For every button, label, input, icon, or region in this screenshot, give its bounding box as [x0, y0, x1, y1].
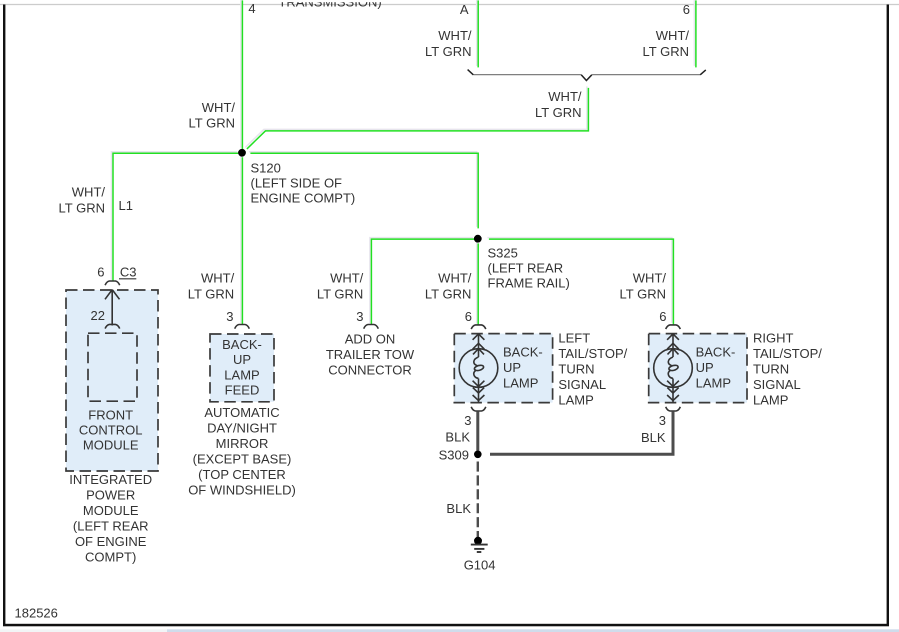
- svg-text:AUTOMATIC: AUTOMATIC: [204, 405, 279, 420]
- svg-text:TRAILER TOW: TRAILER TOW: [326, 347, 415, 362]
- splice S120: [238, 149, 246, 157]
- FCM inner dashed box: [88, 333, 137, 401]
- svg-text:WHT/: WHT/: [202, 100, 236, 115]
- splice S325: [474, 235, 482, 243]
- connector arc right lamp pin 6: [666, 325, 681, 329]
- svg-text:CONTROL: CONTROL: [79, 423, 143, 438]
- svg-text:OF WINDSHIELD): OF WINDSHIELD): [188, 483, 296, 498]
- svg-text:L1: L1: [119, 198, 133, 213]
- svg-text:3: 3: [226, 309, 233, 324]
- svg-text:(LEFT REAR: (LEFT REAR: [73, 519, 149, 534]
- svg-text:BLK: BLK: [446, 501, 471, 516]
- svg-text:WHT/: WHT/: [633, 271, 667, 286]
- svg-text:MODULE: MODULE: [83, 438, 139, 453]
- right back-up lamp dashed box: [649, 334, 747, 403]
- svg-text:BLK: BLK: [641, 430, 666, 445]
- svg-text:FEED: FEED: [225, 383, 260, 398]
- wire W4 from brace to S120: [247, 88, 589, 149]
- svg-text:TURN: TURN: [558, 361, 594, 376]
- svg-text:INTEGRATED: INTEGRATED: [69, 472, 152, 487]
- wire W3 WHT/LT GRN pin 6: [695, 0, 697, 67]
- svg-text:RIGHT: RIGHT: [753, 330, 794, 345]
- svg-text:S120: S120: [251, 161, 281, 176]
- FCM inner arc: [105, 324, 120, 328]
- wire W6 S120 down to back-up lamp feed: [241, 157, 243, 325]
- ground G104: [474, 537, 482, 545]
- svg-text:LT GRN: LT GRN: [643, 44, 689, 59]
- BLK wire left lamp to S309: [476, 411, 479, 450]
- FCM outer dashed box: [66, 290, 158, 471]
- svg-text:LAMP: LAMP: [753, 393, 788, 408]
- svg-text:LEFT: LEFT: [558, 330, 590, 345]
- svg-text:LT GRN: LT GRN: [59, 201, 105, 216]
- left back-up lamp bulb: [459, 334, 498, 403]
- svg-text:TAIL/STOP/: TAIL/STOP/: [753, 346, 822, 361]
- svg-text:WHT/: WHT/: [72, 185, 106, 200]
- wire W5 S120 left branch L1 to C3: [113, 153, 238, 281]
- svg-text:LAMP: LAMP: [224, 368, 259, 383]
- back-up lamp feed dashed box: [210, 334, 274, 402]
- svg-text:FRAME RAIL): FRAME RAIL): [488, 276, 570, 291]
- wire W7 S120 right branch to S325: [250, 153, 478, 228]
- BLK dashed wire to ground: [477, 462, 479, 538]
- svg-text:WHT/: WHT/: [656, 28, 690, 43]
- svg-text:SIGNAL: SIGNAL: [558, 377, 606, 392]
- svg-text:MODULE: MODULE: [83, 503, 139, 518]
- svg-text:LT GRN: LT GRN: [535, 105, 581, 120]
- connector C3 arc: [105, 281, 120, 285]
- svg-text:22: 22: [91, 308, 105, 323]
- left back-up lamp dashed box: [454, 334, 552, 403]
- svg-text:WHT/: WHT/: [201, 271, 235, 286]
- svg-text:6: 6: [659, 309, 666, 324]
- FCM pin arrow 22: [105, 290, 120, 326]
- svg-text:DAY/NIGHT: DAY/NIGHT: [207, 421, 277, 436]
- svg-text:WHT/: WHT/: [330, 271, 364, 286]
- svg-text:A: A: [460, 2, 469, 17]
- svg-text:(LEFT SIDE OF: (LEFT SIDE OF: [251, 176, 343, 191]
- svg-text:6: 6: [97, 265, 104, 280]
- svg-text:SIGNAL: SIGNAL: [753, 377, 801, 392]
- svg-text:LT GRN: LT GRN: [425, 287, 471, 302]
- svg-text:COMPT): COMPT): [85, 550, 136, 565]
- wire W10 S325 right branch to right back-up lamp: [489, 239, 674, 324]
- svg-text:UP: UP: [696, 360, 714, 375]
- wire W9 S325 down to left back-up lamp: [477, 243, 479, 325]
- svg-text:ADD ON: ADD ON: [345, 332, 396, 347]
- svg-text:S309: S309: [439, 448, 469, 463]
- svg-text:LAMP: LAMP: [558, 393, 593, 408]
- connector arc left lamp pin 6: [471, 325, 486, 329]
- svg-text:BACK-: BACK-: [503, 345, 543, 360]
- svg-text:UP: UP: [233, 352, 251, 367]
- svg-text:WHT/: WHT/: [438, 271, 472, 286]
- svg-text:(EXCEPT BASE): (EXCEPT BASE): [193, 452, 292, 467]
- svg-text:TAIL/STOP/: TAIL/STOP/: [558, 346, 627, 361]
- brace (bus split symbol): [473, 74, 700, 76]
- svg-text:TURN: TURN: [753, 361, 789, 376]
- right back-up lamp bulb: [654, 334, 693, 403]
- svg-text:4: 4: [248, 1, 255, 16]
- svg-text:182526: 182526: [15, 606, 58, 621]
- connector arc trailer tow pin 3: [364, 325, 379, 329]
- svg-text:3: 3: [659, 413, 666, 428]
- right lamp bottom connector arc: [666, 407, 681, 411]
- svg-text:(TOP CENTER: (TOP CENTER: [198, 467, 286, 482]
- svg-text:BLK: BLK: [445, 430, 470, 445]
- svg-text:ENGINE COMPT): ENGINE COMPT): [251, 191, 356, 206]
- splice S309: [474, 451, 482, 459]
- svg-text:G104: G104: [464, 558, 496, 573]
- left lamp bottom connector arc: [471, 407, 486, 411]
- wire W2 WHT/LT GRN pin A: [477, 0, 479, 67]
- svg-text:S325: S325: [488, 246, 518, 261]
- svg-text:C3: C3: [120, 265, 137, 280]
- svg-text:WHT/: WHT/: [548, 89, 582, 104]
- svg-text:CONNECTOR: CONNECTOR: [328, 363, 412, 378]
- svg-text:LAMP: LAMP: [696, 376, 731, 391]
- svg-text:LT GRN: LT GRN: [425, 44, 471, 59]
- wire W1 WHT/LT GRN from transmission pin 4: [241, 0, 243, 149]
- connector arc back-up lamp feed pin 3: [235, 325, 250, 329]
- svg-text:3: 3: [356, 309, 363, 324]
- svg-text:LT GRN: LT GRN: [317, 287, 363, 302]
- svg-text:LAMP: LAMP: [503, 376, 538, 391]
- svg-text:BACK-: BACK-: [222, 337, 262, 352]
- svg-text:6: 6: [465, 309, 472, 324]
- frame: [0, 4, 899, 6]
- svg-text:LT GRN: LT GRN: [620, 287, 666, 302]
- svg-text:OF ENGINE: OF ENGINE: [75, 534, 147, 549]
- wire W8 S325 to trailer tow connector: [371, 239, 474, 325]
- svg-text:LT GRN: LT GRN: [188, 287, 234, 302]
- wire shadows: [112, 0, 695, 324]
- svg-text:(LEFT REAR: (LEFT REAR: [488, 261, 564, 276]
- svg-text:BACK-: BACK-: [696, 345, 736, 360]
- svg-text:POWER: POWER: [86, 488, 135, 503]
- svg-text:WHT/: WHT/: [438, 28, 472, 43]
- svg-text:3: 3: [464, 413, 471, 428]
- BLK wire right lamp to S309: [490, 411, 673, 454]
- svg-text:FRONT: FRONT: [88, 408, 133, 423]
- svg-text:6: 6: [683, 2, 690, 17]
- svg-text:LT GRN: LT GRN: [189, 116, 235, 131]
- svg-text:UP: UP: [503, 360, 521, 375]
- svg-text:MIRROR: MIRROR: [216, 436, 269, 451]
